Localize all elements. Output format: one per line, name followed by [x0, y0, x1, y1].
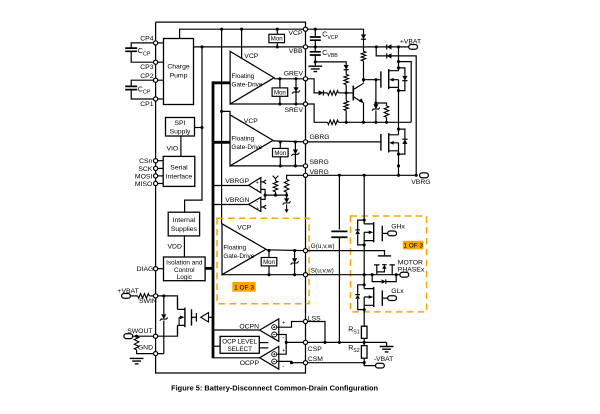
diode VCP charge: [361, 34, 366, 39]
svg-text:Isolation and: Isolation and: [166, 259, 203, 266]
wire capacitor to CP3: [131, 51, 155, 62]
node reference to divider: [285, 194, 288, 197]
node VCP rail junction A: [220, 28, 223, 31]
terminal VBRG: [420, 173, 429, 178]
block Charge Pump: [164, 39, 194, 105]
block Internal Supplies: [168, 212, 199, 236]
wire zener leg 3: [294, 251, 296, 275]
node gate clamp mid: [374, 101, 377, 104]
node CSP input: [285, 341, 288, 344]
zener clamp driver 2: [293, 150, 298, 155]
wire SWOUT to FET source: [156, 325, 178, 336]
svg-text:CP3: CP3: [140, 64, 153, 71]
wire S(u,v,w) return: [222, 274, 306, 276]
svg-text:Internal: Internal: [173, 217, 196, 224]
node reference to resistor: [274, 194, 277, 197]
resistor divider lower: [284, 179, 289, 192]
wire diode to resistor: [323, 92, 327, 94]
svg-text:CVCP: CVCP: [322, 32, 338, 41]
wire VBRGN plus stub: [261, 206, 263, 208]
node S to zener: [293, 273, 296, 276]
svg-text:CCP: CCP: [138, 85, 151, 96]
wire phase to GLx drain: [363, 275, 365, 285]
wire SREV external: [306, 104, 328, 122]
svg-text:-: -: [256, 198, 258, 205]
comparator VBRGN: [249, 197, 261, 211]
node SBRG to zener: [294, 164, 297, 167]
svg-text:1 OF 3: 1 OF 3: [403, 243, 423, 250]
resistor bias upper: [344, 74, 349, 84]
block OCP LEVEL SELECT: [220, 336, 259, 353]
pin SWOUT: [154, 334, 158, 338]
transistor Q1 gate driver BJT: [352, 86, 354, 101]
wire VBAT to resistor: [130, 295, 137, 297]
svg-text:-: -: [256, 187, 258, 194]
svg-text:-: -: [282, 364, 284, 370]
wire GREV output: [274, 78, 305, 80]
comparator OCPN: [260, 319, 279, 342]
svg-text:Mon: Mon: [271, 36, 283, 43]
pin CP1: [154, 97, 158, 101]
wire M2 body diode upper: [399, 129, 405, 139]
wire CSM external: [306, 362, 365, 364]
zener SWIN clamp: [161, 314, 166, 319]
wire battery bypass to VBRG: [376, 47, 416, 175]
zener reference clamp: [284, 198, 289, 203]
wire CP2 stub: [156, 79, 164, 81]
terminal SWOUT: [124, 334, 133, 339]
wire zener leg 1: [295, 79, 297, 104]
wire resistor to Q1 collector: [363, 61, 365, 83]
node GHx drain: [363, 219, 366, 222]
diode GHx body: [355, 230, 360, 234]
capacitor CCP (CP4-CP3): [125, 48, 137, 51]
wire VBAT to M1 source: [398, 47, 400, 71]
wire VCP rail: [180, 29, 306, 38]
op-amp gate driver 2 (Floating Gate-Drive): [230, 115, 273, 166]
wire to ground: [314, 62, 316, 66]
svg-text:CP1: CP1: [140, 101, 153, 108]
svg-text:Mon: Mon: [263, 259, 275, 266]
svg-text:VBRG: VBRG: [411, 179, 430, 186]
wire VBRGP minus to reference: [261, 189, 265, 195]
diode GLx body: [355, 295, 360, 299]
diode bias feed: [344, 65, 349, 70]
wire GND external: [137, 350, 164, 354]
wire VBRG to GHx drain: [363, 175, 365, 220]
diode battery feed upper: [387, 44, 392, 49]
wire VBRG to divider: [287, 175, 306, 179]
wire M1 gate lead: [364, 79, 381, 81]
wire S(u,v,w) external: [306, 274, 400, 276]
terminal -VBAT: [376, 363, 385, 368]
wire CSP internal: [286, 341, 305, 343]
zener clamp driver 1: [293, 87, 298, 92]
transistor clamp left stub: [374, 265, 379, 275]
transistor internal switch FET: [178, 296, 185, 336]
node SREV rail A: [345, 121, 348, 124]
node VBB rail to Mon: [276, 45, 279, 48]
wire VBRGN output: [213, 204, 249, 206]
svg-text:CSM: CSM: [308, 356, 323, 363]
svg-text:CVBB: CVBB: [322, 50, 338, 59]
terminal MOTOR PHASEx: [400, 272, 409, 277]
wire resistor to SREV rail: [345, 111, 347, 123]
node SBRG to Mon: [279, 164, 282, 167]
pin S(u,v,w): [303, 273, 307, 277]
terminal GHx gate: [388, 231, 397, 236]
svg-text:-VBAT: -VBAT: [374, 356, 394, 363]
wire VBRGP output: [213, 185, 249, 187]
capacitor bridge bypass: [331, 231, 347, 237]
svg-text:Charge: Charge: [167, 64, 190, 71]
node GLx source: [363, 308, 366, 311]
wire GHx source to phase: [363, 245, 365, 275]
resistor SWIN series: [138, 294, 150, 299]
diode M1 body: [402, 76, 407, 81]
resistor RS2: [361, 346, 367, 359]
wire GLx source to shunt: [363, 310, 365, 327]
node SBRG tie: [397, 164, 400, 167]
wire CSP to comparator inputs: [277, 335, 287, 355]
pin VCP: [303, 27, 307, 31]
svg-text:CSP: CSP: [308, 346, 322, 353]
node VBRG to bypass cap: [338, 174, 341, 177]
pin DIAG: [154, 267, 158, 271]
pin CP4: [154, 41, 158, 45]
svg-text:CCP: CCP: [138, 46, 151, 57]
ground (sense): [380, 347, 394, 352]
wire bypass cap top: [338, 175, 340, 229]
node CSP sense: [363, 341, 366, 344]
terminal +VBAT: [409, 45, 418, 50]
svg-text:VCP: VCP: [244, 53, 258, 60]
node SREV rail B: [362, 121, 365, 124]
wire VBB to internal supplies: [185, 47, 202, 212]
svg-text:MOSI: MOSI: [135, 173, 152, 180]
svg-text:VIO: VIO: [167, 146, 179, 153]
node gate clamp top: [374, 78, 377, 81]
node CSM input: [290, 361, 293, 364]
wire zener to GND: [163, 321, 165, 354]
node S to Mon: [267, 273, 270, 276]
svg-text:CP4: CP4: [140, 35, 153, 42]
svg-text:Gate-Drive: Gate-Drive: [232, 82, 263, 89]
label 1 OF 3 (driver): [232, 282, 255, 292]
svg-text:RS1: RS1: [348, 326, 360, 335]
diode M2 body: [402, 139, 407, 144]
symbol offset input OCPP plus: [272, 352, 277, 357]
node GBRG to Mon: [279, 140, 282, 143]
wire diode to resistor: [345, 70, 347, 75]
node M1 source: [397, 89, 400, 92]
symbol arrow to negative rail: [286, 204, 288, 209]
pin MISO: [154, 181, 158, 185]
node SWOUT to resistor: [135, 335, 138, 338]
node clamp left: [371, 273, 374, 276]
pin LSS: [303, 319, 307, 323]
wire clamp diode return: [377, 269, 385, 272]
diode phase clamp: [382, 279, 386, 283]
wire Mon VBB bottom: [276, 43, 278, 47]
wire MOSI stub: [156, 175, 164, 177]
wire level select to OCPP: [259, 347, 268, 349]
wire CVCP top: [314, 29, 316, 37]
transistor clamp right stub: [390, 265, 395, 275]
wire control bus to driver 2: [213, 141, 230, 144]
wire M2 source to SBRG/VBRG: [398, 154, 400, 175]
pin GND: [154, 352, 158, 356]
capacitor CCP (CP2-CP1): [125, 86, 137, 89]
svg-text:Logic: Logic: [177, 274, 193, 281]
symbol offset input OCPP minus: [272, 359, 277, 364]
svg-text:G(u,v,w): G(u,v,w): [311, 243, 335, 250]
wire VCP into driver 2: [222, 111, 230, 114]
svg-text:+: +: [282, 348, 285, 354]
wire capacitor to CP1: [131, 90, 155, 99]
block SPI Supply: [166, 118, 195, 137]
node SREV tie: [397, 60, 400, 63]
wire divider to zener: [286, 192, 288, 198]
pin CSn: [154, 159, 158, 163]
ground (switch): [130, 358, 144, 363]
wire OCPP minus to CSM: [277, 361, 292, 362]
svg-text:+: +: [256, 180, 259, 186]
wire bypass cap bottom: [338, 237, 340, 342]
wire CVCP bottom: [314, 40, 316, 47]
pin SWIN: [154, 294, 158, 298]
monitor block Mon (driver 2): [273, 148, 289, 156]
svg-text:VDD: VDD: [168, 243, 182, 250]
wire G(u,v,w) output: [266, 249, 306, 252]
wire G(u,v,w) external: [306, 251, 385, 256]
wire GLx body diode upper: [358, 285, 365, 295]
diode clamp center: [382, 265, 386, 269]
wire to SPI supply: [195, 127, 203, 129]
wire zener top leg: [163, 296, 165, 314]
wire MISO stub: [156, 183, 164, 185]
wire Mon top 1: [279, 79, 281, 89]
svg-text:Floating: Floating: [232, 73, 255, 80]
monitor block Mon (VCP): [269, 34, 285, 42]
wire VCP feed to driver 1: [241, 29, 243, 58]
terminal +VBAT (switch input): [122, 294, 131, 299]
wire M1 body diode lower: [399, 81, 405, 91]
svg-text:+: +: [256, 206, 259, 212]
node phase junction: [363, 273, 366, 276]
node G to Mon: [267, 249, 270, 252]
wire control bus to driver 1: [213, 81, 230, 84]
pin SBRG: [303, 164, 307, 168]
node M1 gate drive: [362, 78, 365, 81]
monitor block Mon (driver 1): [272, 88, 288, 96]
wire control bus vertical: [212, 81, 215, 358]
buffer switch gate driver: [201, 313, 209, 322]
wire GHx body diode upper: [358, 220, 365, 230]
wire to OCP level select: [213, 345, 220, 347]
svg-text:VBRGP: VBRGP: [225, 178, 249, 185]
wire LSS to OCPN plus: [277, 322, 306, 328]
wire Q1 emitter to SREV rail: [363, 103, 365, 123]
svg-text:Figure 5: Battery-Disconnect C: Figure 5: Battery-Disconnect Common-Drai…: [171, 383, 378, 392]
node GREV to zener: [294, 77, 297, 80]
wire CVBB bottom: [314, 55, 316, 62]
wire DIAG stub: [156, 268, 164, 270]
wire VBRGP plus stub: [261, 181, 263, 183]
svg-text:+VBAT: +VBAT: [400, 38, 421, 45]
wire SREV return: [230, 103, 305, 105]
svg-text:VBRGN: VBRGN: [225, 197, 249, 204]
node VBB branch to SPI supply: [200, 126, 203, 129]
comparator VBRGP: [249, 178, 261, 193]
resistor SWOUT to ground: [134, 336, 139, 350]
wire resistor to base node: [338, 92, 346, 94]
wire SREV rail: [338, 121, 411, 123]
capacitor CVBB: [310, 52, 321, 55]
svg-text:GHx: GHx: [391, 224, 405, 231]
svg-text:SBRG: SBRG: [310, 159, 329, 166]
node VCP feed to driver 2: [220, 110, 223, 113]
svg-text:OCPN: OCPN: [239, 324, 259, 331]
svg-text:Control: Control: [174, 267, 195, 274]
symbol fork to VBRG rail: [273, 176, 279, 181]
svg-text:Supply: Supply: [170, 128, 191, 135]
monitor block Mon (driver 3): [261, 258, 277, 266]
node M2 drain: [397, 128, 400, 131]
wire GBRG output: [273, 141, 306, 142]
symbol gate stub G(u,v,w): [378, 255, 391, 257]
node SREV to Mon: [278, 102, 281, 105]
svg-text:GREV: GREV: [284, 70, 304, 77]
comparator OCPP: [260, 346, 279, 369]
symbol fork VBRGP: [263, 180, 266, 184]
wire reference net: [265, 194, 287, 196]
boundary dashed 1-of-3 box (driver): [217, 218, 309, 304]
wire CSP external: [306, 341, 387, 343]
pin GREV: [303, 77, 307, 81]
node VBB rail to supplies: [200, 45, 203, 48]
node G to zener: [293, 249, 296, 252]
svg-text:VCP: VCP: [289, 30, 303, 37]
svg-text:1 OF 3: 1 OF 3: [234, 284, 254, 291]
svg-text:VBB: VBB: [289, 48, 303, 55]
svg-text:SCK: SCK: [138, 166, 152, 173]
wire Mon bottom 3: [268, 266, 270, 275]
wire switch driver to bus: [209, 316, 214, 318]
node M2 source: [397, 153, 400, 156]
node GREV to Mon: [278, 77, 281, 80]
pin MOSI: [154, 174, 158, 178]
wire base drive: [346, 92, 353, 94]
wire resistor to SREV rail: [386, 117, 388, 122]
svg-text:VCP: VCP: [244, 118, 258, 125]
node clamp right: [395, 273, 398, 276]
wire chip outline: [156, 22, 306, 373]
wire GLx gate lead: [382, 297, 387, 299]
wire RS1 to CSP: [363, 338, 365, 345]
node base drive: [345, 91, 348, 94]
wire GBRG to M2 gate: [306, 141, 381, 143]
svg-text:LSS: LSS: [308, 315, 321, 322]
transistor GHx external high-side FET: [364, 220, 374, 245]
zener M1 gate clamp: [373, 104, 378, 109]
wire OCPP output: [213, 357, 260, 359]
node VCP rail to Mon: [276, 28, 279, 31]
node CSP to bypass cap: [338, 341, 341, 344]
node M1 body diode top: [397, 66, 400, 69]
node VBRG battery feed: [415, 174, 418, 177]
resistor RS1: [361, 326, 367, 338]
wire SREV to battery node: [399, 62, 412, 123]
wire M1 to M2 common drain: [398, 91, 400, 130]
wire VDD: [183, 236, 185, 257]
node VCP rail junction B: [240, 28, 243, 31]
wire CSM to -VBAT: [364, 363, 375, 366]
wire zener to SREV rail: [375, 111, 377, 123]
transistor M2 bridge disconnect FET: [389, 129, 399, 151]
svg-text:+: +: [282, 321, 285, 327]
node SREV to zener: [294, 102, 297, 105]
wire SWIN to FET drain: [156, 296, 178, 310]
svg-text:Interface: Interface: [166, 173, 193, 180]
symbol fork VBRGN: [263, 205, 266, 209]
pin CP3: [154, 60, 158, 64]
pin CP2: [154, 78, 158, 82]
wire Mon bottom 2: [279, 156, 281, 166]
svg-text:CSn: CSn: [139, 158, 152, 165]
wire Mon top 2: [279, 142, 281, 149]
wire VCP feed bus to drivers 2 and 3: [221, 29, 223, 224]
node VBRG to bridge: [363, 174, 366, 177]
wire diode to resistor (crosses VBAT line): [363, 39, 365, 51]
diode battery feed lower: [387, 53, 392, 58]
wire CSP to ground: [386, 342, 388, 346]
svg-text:SPI: SPI: [175, 120, 186, 127]
wire RS2 to CSM: [363, 358, 365, 363]
op-amp gate driver 3 (Floating Gate-Drive): [222, 224, 266, 275]
wire CP2 to capacitor: [131, 80, 155, 86]
node GLx drain: [363, 283, 366, 286]
wire VIO: [180, 136, 182, 156]
label 1 OF 3 (bridge): [403, 241, 424, 250]
svg-text:CP2: CP2: [140, 73, 153, 80]
svg-text:Gate-Drive: Gate-Drive: [231, 144, 262, 151]
wire M1 body diode upper: [399, 68, 405, 76]
node SWIN to zener: [162, 294, 165, 297]
wire GHx body diode lower: [358, 234, 365, 245]
svg-text:Mon: Mon: [274, 150, 286, 157]
node LSS to CSP: [323, 341, 326, 344]
svg-text:Floating: Floating: [223, 245, 246, 252]
node SREV rail D: [385, 121, 388, 124]
node GHx source: [363, 243, 366, 246]
wire CP3 stub: [156, 61, 164, 63]
resistor divider upper: [273, 181, 278, 192]
node VBAT to M1: [397, 45, 400, 48]
capacitor CVCP: [310, 37, 321, 40]
pin CSP: [303, 340, 307, 344]
wire SBRG return: [230, 165, 306, 167]
wire VBRGN minus to reference: [261, 195, 265, 199]
svg-text:OCPP: OCPP: [240, 360, 260, 367]
wire CSn stub: [156, 160, 164, 162]
svg-text:S(u,v,w): S(u,v,w): [311, 268, 334, 275]
wire level select to OCPN: [259, 342, 268, 344]
svg-text:GND: GND: [138, 344, 153, 351]
wire VBB rail: [194, 46, 306, 48]
wire resistor to SWIN: [149, 295, 155, 297]
svg-text:GBRG: GBRG: [310, 134, 330, 141]
